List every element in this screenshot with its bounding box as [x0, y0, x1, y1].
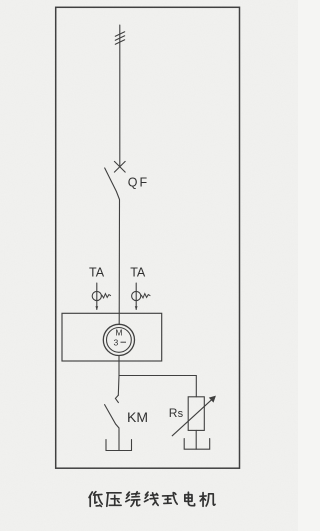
terminal bracket under Rs [184, 439, 210, 450]
char 低 [89, 492, 102, 507]
char 机 [200, 493, 215, 507]
current transformer TA2 primary stub [135, 283, 137, 310]
char 线 [145, 492, 159, 505]
three-phase marks on supply line [115, 32, 124, 45]
resistor Rs body [188, 397, 204, 431]
current transformer TA1 primary stub [96, 283, 98, 310]
wire: branch to rotor resistor [119, 376, 196, 397]
contactor KM fixed contact hook [115, 395, 118, 402]
wire: resistor to terminal [195, 430, 197, 449]
motor M outer circle [103, 324, 134, 355]
contactor KM blade [105, 405, 119, 451]
resistor Rs variable arrow [172, 397, 215, 436]
current transformer TA1 arrowhead [95, 306, 98, 310]
circuit breaker QF contact cross [114, 161, 125, 172]
circuit breaker QF blade [105, 168, 120, 200]
current transformer TA1 circle [92, 291, 101, 300]
caption: 低压绕线式电机 (drawn strokes) [89, 492, 215, 507]
wire: motor to junction node [118, 356, 120, 376]
char 式 [163, 493, 178, 505]
current transformer TA2 circle [132, 291, 141, 300]
motor enclosure box [62, 313, 162, 361]
wire: junction to KM contact [117, 376, 120, 396]
current transformer TA2 secondary squiggle [141, 294, 150, 298]
char 电 [185, 492, 195, 505]
current transformer TA2 arrowhead [135, 306, 138, 310]
wire: incoming supply line [119, 25, 121, 167]
motor M inner circle [107, 328, 132, 353]
current transformer TA1 secondary squiggle [102, 294, 111, 298]
wire: QF to motor [118, 200, 120, 325]
char 绕 [126, 492, 140, 507]
terminal bracket under KM [106, 440, 132, 451]
char 压 [107, 493, 121, 506]
